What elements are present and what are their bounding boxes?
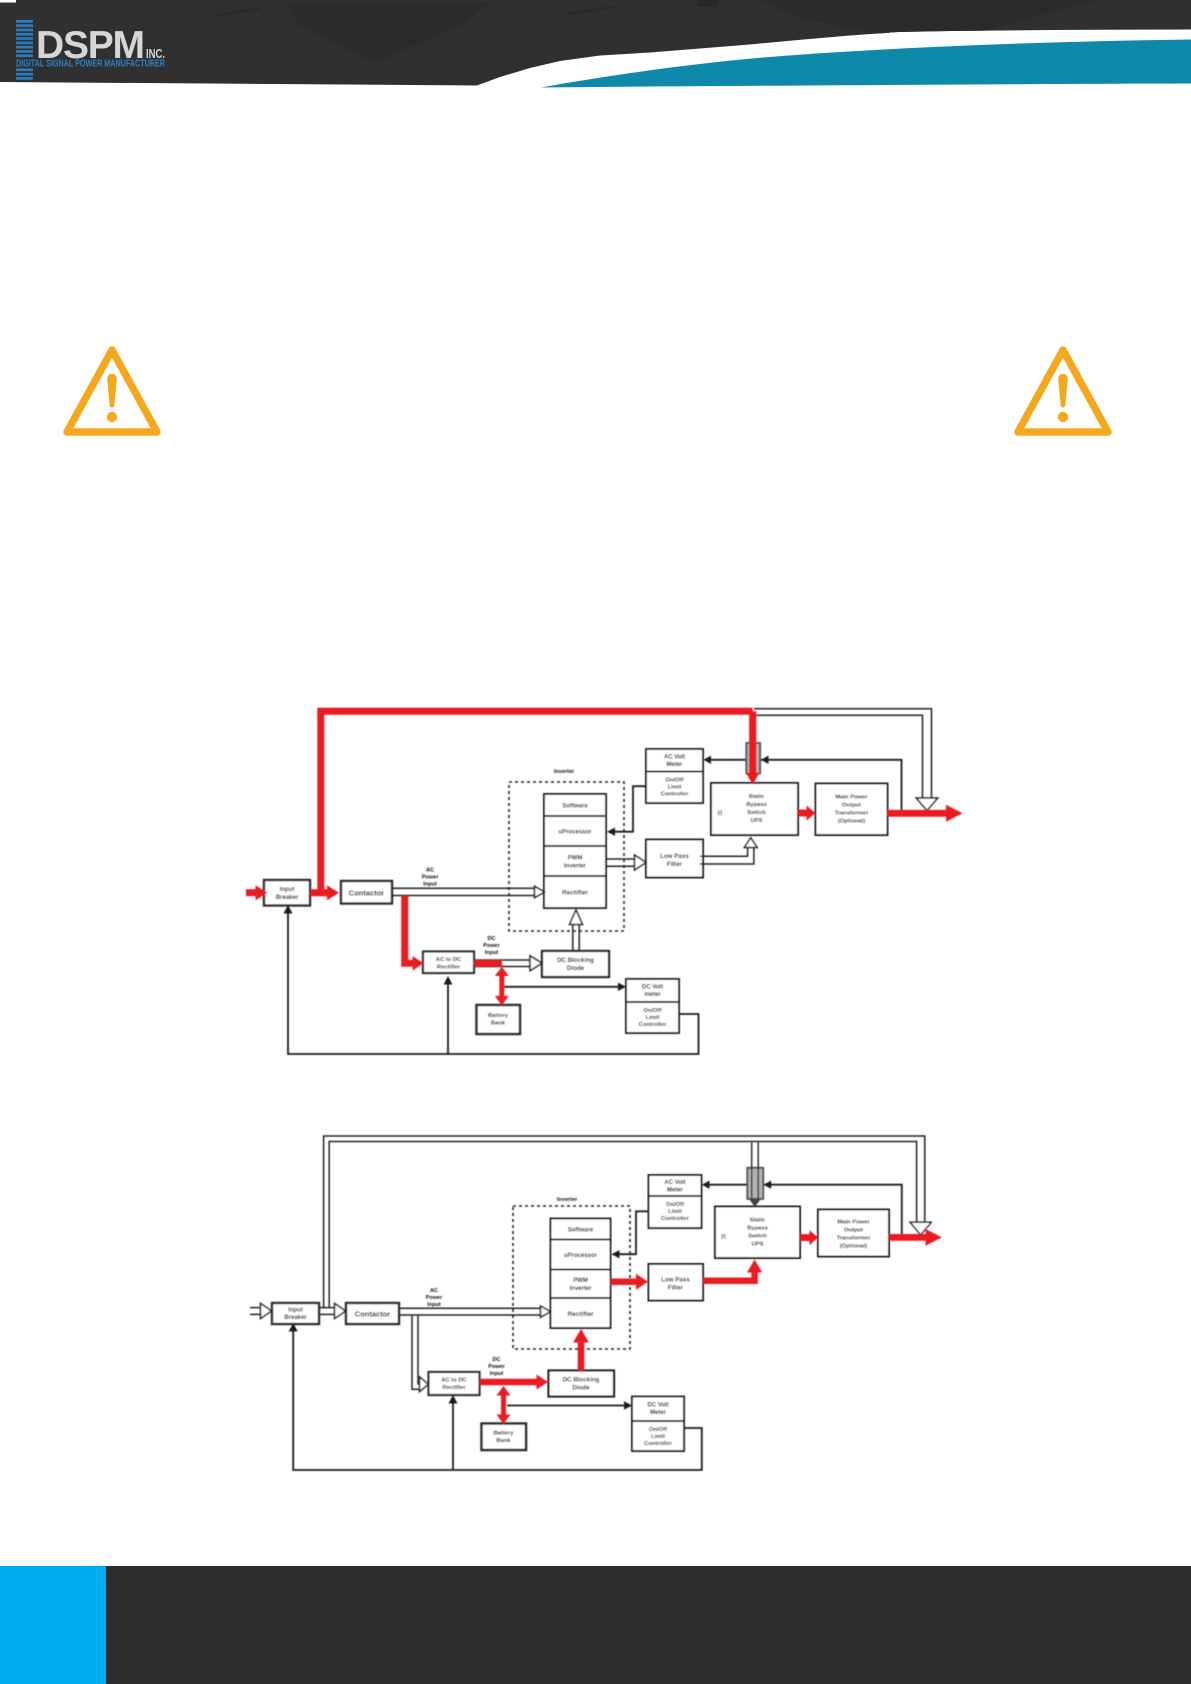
- D2 open arrowhead into AC to DC Rectifier: [420, 1377, 429, 1392]
- D1 box Rectifier (inverter): [544, 876, 606, 908]
- svg-text:Battery: Battery: [488, 1013, 509, 1019]
- D1 red top bypass line: [317, 708, 752, 715]
- svg-text:AC Volt: AC Volt: [664, 1180, 685, 1186]
- svg-text:DC Volt: DC Volt: [647, 1403, 668, 1409]
- svg-text:UPS: UPS: [752, 1242, 764, 1248]
- svg-text:Input: Input: [288, 1308, 303, 1314]
- D1 red output line: [888, 810, 948, 817]
- D2 wire output sense to AC Volt Meter: [709, 1185, 902, 1234]
- D2 red arrowhead into Transformer: [810, 1230, 819, 1245]
- svg-text:DC Blocking: DC Blocking: [563, 1377, 600, 1384]
- D1 arrowhead into Input Breaker bottom: [284, 905, 293, 914]
- D1 arrowhead into uProcessor: [607, 828, 615, 836]
- svg-text:Filter: Filter: [667, 861, 683, 868]
- D2 box Battery Bank: [482, 1424, 527, 1451]
- D1 hollow wire Blocking Diode up to Rectifier: [573, 924, 579, 951]
- D2 box DC Volt Meter: [632, 1397, 684, 1422]
- warning triangle left: [67, 350, 157, 432]
- svg-text:Breaker: Breaker: [276, 895, 299, 901]
- footer dark band: [106, 1566, 1191, 1684]
- D2 wire On/Off controller to uProcessor: [619, 1211, 649, 1254]
- svg-text:Rectifier: Rectifier: [562, 890, 588, 897]
- D1 open arrowhead into Static Switch bottom: [744, 838, 757, 848]
- svg-text:On/Off: On/Off: [649, 1427, 667, 1433]
- D2 box Static Bypass Switch UPS: [715, 1207, 800, 1259]
- D2 red arrowhead into Rectifier bottom: [573, 1329, 589, 1343]
- D2 box PWM Inverter: [551, 1270, 611, 1299]
- svg-text:Limit: Limit: [668, 1209, 682, 1215]
- D1 wire feedback bottom loop: [288, 912, 699, 1054]
- D2 box Rectifier (inverter): [551, 1298, 611, 1328]
- D1 box PWM Inverter: [544, 846, 606, 876]
- svg-text:Input: Input: [490, 1371, 504, 1377]
- svg-text:Input: Input: [423, 882, 437, 888]
- svg-text:DC: DC: [488, 936, 496, 942]
- svg-text:DIGITAL SIGNAL POWER MANUFACTU: DIGITAL SIGNAL POWER MANUFACTURER: [16, 58, 165, 70]
- svg-text:meter: meter: [644, 992, 661, 998]
- D1 box AC Volt Meter: [646, 749, 703, 772]
- svg-text:Diode: Diode: [567, 965, 585, 972]
- D1 red wires: [246, 711, 948, 999]
- svg-text:AC to DC: AC to DC: [441, 1378, 467, 1384]
- svg-text:Low Pass: Low Pass: [661, 1277, 690, 1284]
- D2 arrowhead into AC Volt Meter: [702, 1181, 710, 1189]
- D2 hollow input arrow: [250, 1308, 261, 1315]
- svg-text:Bank: Bank: [491, 1021, 506, 1027]
- D2 box Contactor: [346, 1303, 399, 1324]
- D2 red line Blocking Diode up to Rectifier: [578, 1341, 585, 1371]
- D1 open arrowhead onto output line: [916, 798, 937, 811]
- header accent slash left: [213, 7, 262, 17]
- svg-text:On/Off: On/Off: [643, 1008, 661, 1014]
- D2 box Software: [551, 1219, 611, 1240]
- D2 arrowhead into uProcessor: [612, 1250, 620, 1258]
- svg-text:Diode: Diode: [572, 1385, 590, 1392]
- svg-text:On/Off: On/Off: [665, 778, 683, 784]
- svg-text:PWM: PWM: [568, 856, 583, 862]
- D2 box Main Power Output Transformer: [818, 1210, 889, 1257]
- svg-text:On/Off: On/Off: [666, 1202, 684, 1208]
- D2 box AC Volt Meter: [649, 1175, 702, 1196]
- D1 box Static Bypass Switch UPS: [711, 783, 798, 835]
- D2 red arrowhead battery down: [497, 1415, 511, 1425]
- header blue swoosh: [541, 40, 1191, 88]
- warning triangle right: [1018, 350, 1108, 432]
- header white corner top-left: [0, 0, 16, 3]
- D2 red output line: [889, 1234, 927, 1241]
- svg-text:Bypass: Bypass: [747, 1226, 768, 1232]
- svg-text:Switch: Switch: [747, 810, 766, 816]
- D1 open arrowhead into Rectifier bottom: [570, 910, 583, 925]
- svg-text:Inverter: Inverter: [569, 1286, 592, 1292]
- D1 red arrowhead battery down: [495, 996, 509, 1005]
- svg-text:Contactor: Contactor: [349, 889, 384, 898]
- D1 hollow wire Low Pass Filter to Static Switch: [700, 847, 754, 864]
- D2 box AC to DC Rectifier: [429, 1372, 480, 1395]
- svg-text:Battery: Battery: [494, 1431, 515, 1437]
- svg-text:Power: Power: [426, 1295, 443, 1301]
- svg-text:AC to DC: AC to DC: [436, 957, 462, 963]
- D1 red drop from Contactor line: [405, 896, 414, 963]
- D2 hollow drop to AC to DC Rectifier: [412, 1315, 420, 1389]
- D2 box uProcessor: [551, 1240, 611, 1270]
- D2 label DC Power Input: [488, 1357, 505, 1377]
- D1 box DC Blocking Diode: [542, 951, 609, 977]
- header accent pentagon: [287, 3, 489, 63]
- svg-text:Output: Output: [844, 1228, 863, 1234]
- svg-text:Output: Output: [842, 803, 861, 809]
- D1 wire battery junction to DC Volt Meter: [502, 986, 620, 988]
- D1 box DC Volt Meter: [626, 979, 679, 1002]
- svg-text:Input: Input: [485, 950, 499, 956]
- svg-text:Software: Software: [562, 804, 588, 810]
- svg-text:Input: Input: [280, 887, 295, 893]
- D1 red arrowhead into AC to DC Rectifier: [413, 956, 424, 971]
- svg-text:Static: Static: [749, 794, 766, 800]
- header accent right wedge: [760, 0, 1100, 45]
- D1 red line Input Breaker to Contactor: [311, 889, 329, 896]
- svg-text:Power: Power: [483, 943, 500, 949]
- D2 wire battery junction to DC Volt Meter: [507, 1405, 626, 1407]
- D1 arrowhead mid sense line: [761, 756, 769, 764]
- svg-text:Meter: Meter: [667, 1188, 684, 1194]
- D1 red arrowhead into Input Breaker: [256, 885, 268, 900]
- D2 wire feedback bottom loop: [293, 1330, 702, 1470]
- svg-text:Inverter: Inverter: [564, 864, 587, 870]
- svg-text:DC Blocking: DC Blocking: [557, 957, 594, 964]
- D1 box Software: [544, 794, 606, 816]
- D1 arrowhead into AC Volt Meter: [704, 756, 712, 764]
- D2 open arrowhead onto output line: [910, 1222, 931, 1235]
- svg-text:Meter: Meter: [666, 762, 683, 768]
- svg-text:Transformer: Transformer: [837, 1236, 872, 1242]
- D2 red battery shaft: [501, 1391, 506, 1419]
- D2 label AC Power Input: [426, 1288, 443, 1308]
- D1 label DC Power Input: [483, 936, 500, 956]
- D2 hollow stub into Static Switch top (gray band + wire): [747, 1143, 763, 1208]
- D1 red arrowhead into Transformer: [807, 806, 816, 821]
- D1 wire feedback to AC-DC rectifier: [447, 983, 449, 1054]
- D2 dashed box Inverter: [513, 1197, 630, 1349]
- D2 red wires: [480, 1237, 928, 1418]
- D1 box Contactor: [341, 881, 392, 904]
- D2 arrowhead into Input Breaker bottom: [289, 1323, 298, 1332]
- D1 hollow wire AC-DC Rectifier to Blocking Diode: [474, 960, 531, 967]
- svg-text:(/): (/): [718, 811, 723, 817]
- D1 red segment Rectifier to battery junction: [474, 960, 502, 967]
- D1 wire On/Off controller to uProcessor: [615, 786, 647, 832]
- svg-text:UPS: UPS: [751, 818, 763, 824]
- D1 box AC to DC Rectifier: [423, 952, 474, 974]
- logo bars: [16, 20, 33, 80]
- D2 arrowhead mid sense line: [764, 1181, 772, 1189]
- svg-text:Static: Static: [750, 1218, 767, 1224]
- svg-text:Bank: Bank: [496, 1438, 511, 1444]
- svg-text:Limit: Limit: [646, 1015, 660, 1021]
- D1 hollow stub into Static Switch top (gray band): [746, 743, 760, 774]
- svg-text:DC: DC: [493, 1357, 501, 1363]
- svg-text:Contactor: Contactor: [355, 1310, 390, 1319]
- svg-text:(Optional): (Optional): [840, 1244, 867, 1250]
- svg-text:Power: Power: [488, 1364, 505, 1370]
- D1 box On/Off Limit Controller (AC): [646, 772, 703, 804]
- D2 hollow wire Input Breaker to Contactor: [319, 1308, 335, 1315]
- D2 red arrow Static to Transformer: [800, 1234, 810, 1241]
- footer blue square: [0, 1566, 106, 1684]
- D1 red arrowhead output: [946, 805, 963, 822]
- D1 red arrowhead into Static Switch top: [746, 773, 760, 785]
- svg-text:uProcessor: uProcessor: [558, 830, 592, 836]
- svg-text:PWM: PWM: [573, 1278, 588, 1284]
- D2 red arrowhead battery up: [497, 1386, 511, 1396]
- D2 red arrowhead into Static Switch bottom: [747, 1260, 762, 1273]
- D1 open arrowhead into DC Blocking Diode: [530, 956, 542, 971]
- svg-text:Limit: Limit: [651, 1434, 665, 1440]
- svg-text:Inverter: Inverter: [557, 1197, 578, 1203]
- svg-text:Inverter: Inverter: [554, 769, 575, 775]
- D1 box Low Pass Filter: [646, 840, 703, 878]
- D1 arrowhead into AC to DC Rectifier bottom: [444, 976, 453, 985]
- D2 hollow riser and top bypass run: [324, 1136, 925, 1308]
- header accent slash right: [565, 5, 618, 15]
- D2 red line Rectifier to Blocking Diode: [480, 1379, 538, 1386]
- D1 red riser left: [317, 711, 324, 892]
- header accent top notch: [697, 0, 718, 7]
- D1 red drop to Static Switch: [749, 711, 756, 773]
- D1 open arrowhead into Low Pass Filter: [635, 855, 647, 870]
- svg-text:uProcessor: uProcessor: [564, 1253, 598, 1259]
- svg-text:Breaker: Breaker: [284, 1315, 307, 1321]
- svg-text:Controller: Controller: [639, 1022, 667, 1028]
- svg-text:AC: AC: [426, 868, 434, 874]
- svg-text:Power: Power: [422, 875, 439, 881]
- svg-text:(/): (/): [721, 1234, 726, 1240]
- D1 dashed box Inverter: [509, 769, 624, 931]
- D2 wire feedback to AC-DC rectifier: [452, 1402, 454, 1470]
- D1 red battery shaft: [499, 972, 504, 999]
- D1 wire output sense to AC Volt Meter: [709, 760, 902, 810]
- D2 open arrowhead into Rectifier: [541, 1306, 551, 1317]
- D2 hollow wire Contactor to Rectifier: [399, 1308, 541, 1315]
- D1 red arrow Static to Transformer: [798, 810, 807, 817]
- D2 box Input Breaker: [272, 1303, 319, 1324]
- svg-text:Software: Software: [568, 1228, 594, 1234]
- svg-text:Controller: Controller: [661, 1216, 689, 1222]
- svg-text:Low Pass: Low Pass: [660, 853, 689, 860]
- D1 box Battery Bank: [477, 1005, 521, 1034]
- svg-text:Main Power: Main Power: [837, 1220, 870, 1226]
- D1 label AC Power Input: [422, 868, 439, 888]
- D1 hollow wire bypass top run: [754, 709, 932, 798]
- D2 red arrowhead output: [926, 1229, 943, 1246]
- svg-text:(Optional): (Optional): [838, 819, 865, 825]
- D1 open arrowhead into Rectifier: [535, 886, 545, 897]
- D1 box Input Breaker: [264, 880, 310, 906]
- D1 arrowhead into DC Volt Meter: [618, 983, 626, 991]
- D2 red line Low Pass Filter to Static Switch: [703, 1271, 755, 1281]
- svg-text:AC: AC: [430, 1288, 438, 1294]
- D1 box Main Power Output Transformer: [816, 784, 888, 836]
- D2 box DC Blocking Diode: [549, 1371, 615, 1397]
- svg-text:Transformer: Transformer: [835, 811, 870, 817]
- svg-text:Rectifier: Rectifier: [437, 965, 461, 971]
- D2 box On/Off Limit Controller (DC): [632, 1421, 684, 1451]
- svg-text:Main Power: Main Power: [835, 795, 868, 801]
- svg-text:Filter: Filter: [668, 1285, 684, 1292]
- svg-text:Rectifier: Rectifier: [567, 1311, 593, 1318]
- D1 hollow wire PWM Inverter to Low Pass Filter: [606, 859, 635, 866]
- D1 box On/Off Limit Controller (DC): [626, 1002, 679, 1033]
- D2 arrowhead into AC to DC Rectifier bottom: [449, 1395, 458, 1404]
- svg-text:Bypass: Bypass: [746, 802, 767, 808]
- D2 box On/Off Limit Controller (AC): [649, 1196, 702, 1228]
- svg-text:Limit: Limit: [668, 785, 682, 791]
- D1 red arrowhead battery up: [495, 967, 509, 976]
- D2 red line PWM Inverter to Low Pass Filter: [611, 1278, 638, 1285]
- svg-text:AC Volt: AC Volt: [664, 755, 685, 761]
- D2 box Low Pass Filter: [649, 1264, 704, 1301]
- D2 red arrowhead into Low Pass Filter: [636, 1274, 648, 1290]
- svg-text:DC Volt: DC Volt: [642, 985, 663, 991]
- D2 red arrowhead into Blocking Diode: [537, 1375, 549, 1390]
- D2 arrowhead into DC Volt Meter: [624, 1401, 632, 1409]
- svg-text:Input: Input: [427, 1302, 441, 1308]
- svg-text:Controller: Controller: [644, 1441, 672, 1447]
- svg-text:Meter: Meter: [650, 1410, 667, 1416]
- svg-text:Rectifier: Rectifier: [442, 1385, 466, 1391]
- D1 red input line: [246, 889, 257, 896]
- D1 box uProcessor: [544, 816, 606, 846]
- D1 red arrowhead into Contactor: [327, 885, 339, 900]
- svg-text:Controller: Controller: [661, 792, 689, 798]
- svg-text:Switch: Switch: [748, 1234, 767, 1240]
- D1 hollow wire Contactor to Rectifier: [392, 888, 535, 895]
